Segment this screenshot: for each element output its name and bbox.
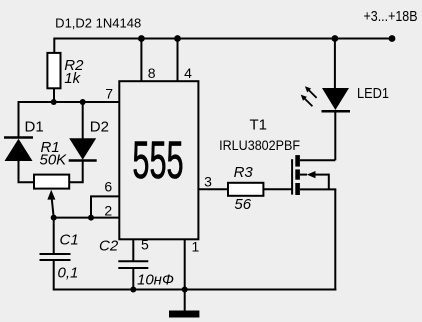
wire: R2 bottom to node wire — [53, 88, 55, 102]
capacitor C1 — [40, 254, 71, 260]
svg-text:6: 6 — [104, 178, 112, 194]
svg-text:0,1: 0,1 — [58, 264, 79, 281]
wire: rail down to LED — [334, 39, 336, 90]
svg-text:D1: D1 — [25, 118, 44, 135]
LED LED1 — [301, 86, 350, 111]
node: rail junction pin 8 — [138, 35, 145, 42]
wire: down to D1 — [18, 101, 20, 138]
svg-text:D2: D2 — [90, 118, 109, 135]
wire: top power rail — [54, 38, 392, 40]
wire: LED cathode down to drain — [334, 111, 336, 160]
wire: pin 5 vertical — [132, 239, 134, 261]
svg-text:1: 1 — [192, 238, 200, 254]
diode D1 — [4, 138, 33, 162]
wiper arrow of R1 — [47, 190, 55, 218]
wire: down to D2 — [82, 101, 84, 139]
resistor R3 — [228, 183, 263, 196]
svg-text:1k: 1k — [64, 70, 81, 87]
wire: pin 3 to R3 — [198, 188, 228, 190]
node: R2 bottom junction — [51, 99, 57, 105]
svg-text:56: 56 — [234, 196, 251, 213]
node: D2 top junction — [80, 99, 86, 105]
svg-text:IRLU3802PBF: IRLU3802PBF — [219, 137, 300, 153]
potentiometer R1 — [34, 175, 69, 189]
node: C2 bottom junction — [130, 287, 136, 293]
svg-text:2: 2 — [104, 202, 112, 218]
svg-text:5: 5 — [141, 237, 149, 253]
svg-text:8: 8 — [148, 65, 156, 81]
diode D2 — [69, 138, 97, 160]
node: pin1/bottom rail junction — [182, 287, 188, 293]
svg-text:+3...+18В: +3...+18В — [364, 9, 418, 25]
wire: pin 1 vertical to ground — [184, 239, 186, 311]
wire: D1 anode down and right to R1 — [19, 161, 35, 183]
svg-text:LED1: LED1 — [357, 86, 389, 102]
wire: D2 cathode down and left to R1 — [70, 161, 83, 183]
resistor R2 — [47, 53, 60, 88]
svg-text:C1: C1 — [60, 231, 79, 248]
svg-text:C2: C2 — [99, 237, 119, 254]
svg-text:3: 3 — [204, 174, 212, 190]
node: wiper/C1 junction — [51, 215, 57, 221]
node: rail junction LED branch — [332, 35, 339, 42]
wire: pin 6 horizontal — [91, 195, 120, 197]
transistor T1 MOSFET — [292, 155, 336, 195]
svg-text:4: 4 — [184, 65, 192, 81]
wire: C1 bottom lead to bottom rail — [54, 260, 337, 290]
wire: pin 2 horizontal — [54, 217, 120, 219]
node: rail junction pin 4 — [174, 35, 181, 42]
wire: pin 4 vertical — [177, 39, 179, 82]
wire: pin 8 vertical — [140, 39, 142, 82]
svg-text:R3: R3 — [234, 164, 254, 181]
svg-text:10нФ: 10нФ — [137, 271, 174, 288]
wire: source down to bottom rail — [334, 189, 336, 290]
wire: pin 7 horizontal (D1 to 555) — [19, 101, 121, 103]
node: pin6 jog junction — [88, 215, 94, 221]
svg-text:50K: 50K — [40, 151, 68, 168]
svg-text:D1,D2 1N4148: D1,D2 1N4148 — [55, 15, 141, 30]
wire: C2 bottom lead — [132, 268, 134, 290]
ground — [169, 311, 199, 318]
svg-text:555: 555 — [132, 132, 183, 191]
IC U1 555 box — [119, 81, 198, 239]
node: rail right endpoint — [389, 35, 396, 42]
wire: rail corner down to R2 top — [53, 38, 55, 54]
wire: C1 top lead — [53, 218, 55, 254]
svg-text:7: 7 — [105, 85, 113, 101]
svg-text:T1: T1 — [250, 117, 268, 134]
wire: pin6-pin2 jog vertical — [90, 195, 92, 217]
capacitor C2 — [118, 261, 148, 268]
wire: R3 to gate — [263, 188, 292, 190]
